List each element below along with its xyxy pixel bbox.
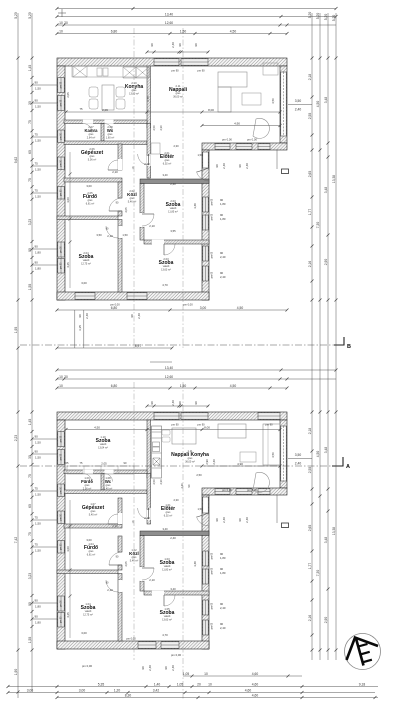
room label Szoba bbox=[160, 607, 175, 621]
svg-text:75: 75 bbox=[28, 178, 32, 182]
upper top wall windows bbox=[154, 59, 179, 65]
svg-text:3,48: 3,48 bbox=[324, 447, 328, 454]
lower plan top exterior wall bbox=[57, 412, 287, 420]
svg-text:2,40: 2,40 bbox=[222, 517, 226, 523]
lower pantry door bbox=[83, 470, 93, 474]
svg-text:2,40: 2,40 bbox=[180, 483, 184, 489]
svg-text:7,30: 7,30 bbox=[316, 222, 320, 229]
svg-text:2,50: 2,50 bbox=[152, 479, 156, 485]
lower door to bathroom bbox=[109, 552, 122, 565]
upper kitchen/living divider wall bbox=[147, 66, 151, 128]
svg-text:3,40: 3,40 bbox=[162, 173, 168, 177]
upper plan living-room right exterior wall bbox=[280, 66, 287, 143]
svg-text:20: 20 bbox=[197, 683, 201, 687]
svg-text:2,40: 2,40 bbox=[85, 313, 89, 319]
svg-text:8,97: 8,97 bbox=[135, 344, 142, 348]
svg-text:1,20: 1,20 bbox=[114, 689, 121, 693]
svg-text:pm 90: pm 90 bbox=[60, 616, 62, 623]
upper pantry door bbox=[83, 120, 93, 124]
svg-text:1,50: 1,50 bbox=[197, 507, 203, 511]
svg-text:2,40: 2,40 bbox=[245, 163, 249, 169]
svg-text:1,50: 1,50 bbox=[35, 548, 41, 552]
svg-text:1,50: 1,50 bbox=[35, 194, 41, 198]
svg-text:3,23: 3,23 bbox=[28, 219, 32, 226]
svg-text:75: 75 bbox=[80, 107, 83, 111]
lower right wall windows and entrance bbox=[203, 497, 208, 513]
upper entry closet bbox=[151, 143, 160, 154]
upper living room glass wall bbox=[281, 72, 286, 136]
svg-text:90: 90 bbox=[178, 43, 182, 47]
section line B bbox=[20, 344, 334, 346]
svg-text:2,40: 2,40 bbox=[295, 462, 302, 466]
upper wall between bottom-left room and corridor bbox=[118, 238, 122, 292]
svg-text:1,55: 1,55 bbox=[28, 284, 32, 291]
svg-text:2,10: 2,10 bbox=[112, 524, 118, 528]
svg-text:4,90: 4,90 bbox=[237, 462, 243, 466]
svg-text:4,70: 4,70 bbox=[162, 283, 168, 287]
svg-text:60: 60 bbox=[28, 150, 32, 154]
upper corridor left wall mid bbox=[118, 211, 122, 216]
room label Szoba bbox=[166, 199, 181, 213]
interior vertical dim line upper left rooms bbox=[69, 152, 71, 288]
svg-text:1,55: 1,55 bbox=[28, 637, 32, 644]
room label Szoba bbox=[79, 251, 94, 265]
svg-text:6,02 m²: 6,02 m² bbox=[164, 514, 173, 517]
svg-text:90: 90 bbox=[150, 401, 154, 405]
lower door kitchen side bbox=[138, 508, 149, 519]
svg-text:1,50: 1,50 bbox=[35, 138, 41, 142]
upper wall above mechanical room bbox=[64, 141, 147, 145]
svg-text:B: B bbox=[347, 344, 351, 350]
svg-text:3,00: 3,00 bbox=[81, 281, 87, 285]
lower left wall windows bbox=[58, 432, 64, 447]
svg-text:3,48: 3,48 bbox=[324, 537, 328, 544]
svg-text:5,20: 5,20 bbox=[316, 13, 320, 20]
room label Előtér bbox=[160, 151, 174, 165]
svg-text:60: 60 bbox=[28, 504, 32, 508]
svg-text:9,62: 9,62 bbox=[14, 157, 18, 164]
lower entrance door bbox=[196, 516, 209, 526]
svg-text:pm 90: pm 90 bbox=[60, 453, 62, 460]
upper door to bathroom bbox=[109, 198, 122, 211]
svg-text:90: 90 bbox=[238, 164, 242, 168]
svg-text:6,80: 6,80 bbox=[111, 306, 118, 310]
upper kitchen hob bbox=[123, 67, 149, 78]
svg-text:20: 20 bbox=[64, 21, 68, 25]
svg-text:3,00: 3,00 bbox=[86, 538, 92, 542]
svg-text:1,50: 1,50 bbox=[35, 104, 41, 108]
lower wall below bathroom bbox=[57, 570, 118, 574]
lower living desk bbox=[218, 424, 246, 438]
upper door to middle room bbox=[142, 214, 154, 226]
room label Előtér bbox=[161, 503, 175, 517]
svg-text:2,65: 2,65 bbox=[308, 171, 312, 178]
svg-text:13,63 m²: 13,63 m² bbox=[161, 268, 171, 271]
lower bedroom closet row bbox=[67, 466, 134, 474]
svg-text:1,45: 1,45 bbox=[28, 65, 32, 72]
svg-text:2,40: 2,40 bbox=[171, 42, 175, 48]
room label Közl bbox=[127, 189, 137, 203]
svg-text:7,42: 7,42 bbox=[14, 537, 18, 544]
svg-text:2,75: 2,75 bbox=[146, 96, 150, 102]
svg-text:90: 90 bbox=[35, 260, 39, 264]
svg-text:1,45: 1,45 bbox=[28, 419, 32, 426]
svg-text:6,80: 6,80 bbox=[111, 384, 118, 388]
svg-text:5,20: 5,20 bbox=[332, 15, 336, 22]
svg-text:1,50: 1,50 bbox=[122, 233, 128, 237]
svg-text:75: 75 bbox=[28, 532, 32, 536]
svg-text:2,40: 2,40 bbox=[148, 665, 152, 671]
svg-text:pm 90: pm 90 bbox=[265, 423, 273, 427]
svg-text:1,80: 1,80 bbox=[220, 217, 226, 221]
svg-text:2,40: 2,40 bbox=[220, 275, 226, 279]
svg-text:11,83 m²: 11,83 m² bbox=[162, 568, 172, 571]
lower wall above bottom-middle room bbox=[144, 591, 209, 595]
svg-text:3,23: 3,23 bbox=[28, 573, 32, 580]
svg-text:75: 75 bbox=[35, 542, 39, 546]
svg-text:90: 90 bbox=[178, 401, 182, 405]
svg-text:5,20: 5,20 bbox=[324, 14, 328, 21]
svg-text:5,20: 5,20 bbox=[14, 12, 18, 19]
lower bottom wall windows bbox=[138, 642, 156, 648]
svg-text:6,02 m²: 6,02 m² bbox=[163, 162, 172, 165]
svg-text:1,80: 1,80 bbox=[220, 202, 226, 206]
upper corridor right wall lower bbox=[140, 227, 144, 240]
svg-text:90: 90 bbox=[35, 244, 39, 248]
svg-text:2,65: 2,65 bbox=[308, 525, 312, 532]
svg-text:1,77: 1,77 bbox=[308, 563, 312, 570]
svg-text:3,00: 3,00 bbox=[27, 689, 34, 693]
svg-text:2,30: 2,30 bbox=[159, 479, 163, 485]
upper hall-side wall lower part bbox=[147, 124, 151, 179]
svg-text:2,40: 2,40 bbox=[220, 626, 226, 630]
svg-text:4,50: 4,50 bbox=[230, 30, 237, 34]
svg-text:2,16: 2,16 bbox=[308, 261, 312, 268]
svg-text:pm 60: pm 60 bbox=[212, 213, 214, 220]
lower wall under top-left room bbox=[64, 470, 147, 474]
lower living room glass wall bbox=[281, 426, 286, 481]
room label Nappali bbox=[169, 84, 188, 98]
svg-text:pm 0,00: pm 0,00 bbox=[222, 488, 232, 492]
svg-text:4,90: 4,90 bbox=[234, 122, 240, 126]
svg-text:10: 10 bbox=[59, 21, 63, 25]
lower corridor left wall upper bbox=[118, 536, 122, 552]
svg-text:2,18: 2,18 bbox=[308, 74, 312, 81]
room label Wc bbox=[106, 125, 115, 139]
lower mech room right wall bbox=[118, 498, 122, 524]
svg-text:4,50: 4,50 bbox=[316, 101, 320, 108]
lower wall above mechanical room bbox=[64, 490, 147, 494]
room label Gépészet bbox=[81, 147, 104, 161]
svg-text:75: 75 bbox=[35, 486, 39, 490]
svg-text:90: 90 bbox=[35, 449, 39, 453]
upper door kitchen side bbox=[138, 154, 149, 165]
svg-text:9,18: 9,18 bbox=[359, 683, 366, 687]
svg-text:1,90: 1,90 bbox=[14, 669, 18, 676]
svg-text:3,40: 3,40 bbox=[162, 527, 168, 531]
svg-text:3,00: 3,00 bbox=[86, 184, 92, 188]
svg-text:1,50: 1,50 bbox=[35, 521, 41, 525]
svg-text:pm 0,00: pm 0,00 bbox=[183, 303, 193, 307]
svg-text:1,80: 1,80 bbox=[220, 571, 226, 575]
svg-text:4,60: 4,60 bbox=[252, 672, 259, 676]
lower interior dimension annotations bbox=[65, 426, 282, 432]
svg-text:2,40: 2,40 bbox=[171, 665, 175, 671]
svg-text:12,75 m²: 12,75 m² bbox=[83, 613, 93, 616]
svg-text:1,80: 1,80 bbox=[35, 266, 41, 270]
svg-text:2,10: 2,10 bbox=[112, 170, 118, 174]
svg-text:75: 75 bbox=[35, 132, 39, 136]
svg-text:1,50: 1,50 bbox=[35, 492, 41, 496]
lower downpipe block outside right wall bbox=[282, 523, 289, 528]
svg-text:3,48: 3,48 bbox=[324, 187, 328, 194]
lower door to middle room bbox=[142, 568, 154, 580]
svg-text:1,50: 1,50 bbox=[35, 455, 41, 459]
svg-text:7,30: 7,30 bbox=[316, 570, 320, 577]
svg-text:4,50: 4,50 bbox=[230, 384, 237, 388]
svg-text:75: 75 bbox=[28, 474, 32, 478]
room label Szoba bbox=[160, 557, 175, 571]
svg-text:90: 90 bbox=[35, 598, 39, 602]
upper living cabinet bbox=[263, 63, 278, 75]
svg-text:90: 90 bbox=[35, 614, 39, 618]
svg-text:4,50: 4,50 bbox=[237, 306, 244, 310]
svg-text:2,05: 2,05 bbox=[124, 207, 128, 213]
svg-text:pm 90: pm 90 bbox=[60, 435, 62, 442]
svg-text:pm 90: pm 90 bbox=[171, 69, 179, 73]
svg-text:pm 90: pm 90 bbox=[171, 423, 179, 427]
svg-text:4,25: 4,25 bbox=[66, 262, 70, 268]
svg-text:13,40: 13,40 bbox=[165, 13, 173, 17]
upper plan top exterior wall bbox=[57, 58, 287, 66]
left dimension chain outer bbox=[14, 12, 20, 698]
upper corridor left wall upper bbox=[118, 182, 122, 198]
svg-text:pm 90: pm 90 bbox=[197, 423, 205, 427]
interior vertical dim line lower left rooms bbox=[69, 500, 71, 638]
svg-text:pm 90: pm 90 bbox=[197, 69, 205, 73]
upper kitchen counter bbox=[72, 66, 150, 77]
upper door bottom-left room bbox=[106, 226, 118, 238]
room label Szoba bbox=[96, 435, 111, 449]
svg-text:pm 0,00: pm 0,00 bbox=[171, 653, 182, 657]
svg-text:90: 90 bbox=[150, 43, 154, 47]
svg-text:13,04 m²: 13,04 m² bbox=[98, 446, 108, 449]
upper dark wall above middle room bbox=[140, 179, 209, 184]
svg-text:2,55: 2,55 bbox=[308, 467, 312, 474]
svg-text:75: 75 bbox=[28, 120, 32, 124]
svg-text:90: 90 bbox=[215, 164, 219, 168]
svg-text:4,70: 4,70 bbox=[162, 633, 168, 637]
upper kitchen table bbox=[102, 85, 114, 110]
svg-text:13,40: 13,40 bbox=[165, 366, 173, 370]
lower wc door bbox=[105, 470, 114, 474]
site corner mark top-left bbox=[58, 9, 66, 17]
svg-text:2,10: 2,10 bbox=[107, 234, 113, 238]
svg-text:pm 0,00: pm 0,00 bbox=[247, 488, 257, 492]
svg-text:2,05: 2,05 bbox=[101, 462, 107, 466]
svg-text:pm 60: pm 60 bbox=[212, 567, 214, 574]
room label Közl bbox=[129, 548, 139, 562]
svg-text:6,61 m²: 6,61 m² bbox=[87, 553, 96, 556]
svg-text:3,48: 3,48 bbox=[193, 203, 197, 209]
svg-text:90: 90 bbox=[164, 666, 168, 670]
svg-text:1,05: 1,05 bbox=[183, 672, 190, 676]
lower wall below mechanical room bbox=[64, 524, 122, 528]
svg-text:4,60: 4,60 bbox=[252, 694, 259, 698]
svg-text:pm 90: pm 90 bbox=[60, 486, 62, 493]
svg-text:2,50: 2,50 bbox=[152, 125, 156, 131]
lower corridor left wall mid bbox=[118, 565, 122, 570]
svg-text:pm 0,00: pm 0,00 bbox=[126, 637, 136, 641]
svg-text:12,60: 12,60 bbox=[165, 375, 173, 379]
lower hall-side wall lower part bbox=[147, 474, 151, 525]
svg-text:90: 90 bbox=[35, 434, 39, 438]
svg-text:1,80: 1,80 bbox=[35, 620, 41, 624]
svg-text:90: 90 bbox=[215, 518, 219, 522]
svg-text:2,18: 2,18 bbox=[308, 428, 312, 435]
svg-text:2,05: 2,05 bbox=[66, 92, 70, 98]
svg-text:3,42: 3,42 bbox=[153, 689, 160, 693]
svg-text:1,80: 1,80 bbox=[35, 250, 41, 254]
svg-text:1,80: 1,80 bbox=[35, 604, 41, 608]
svg-text:20: 20 bbox=[64, 375, 68, 379]
svg-text:36,00 m²: 36,00 m² bbox=[173, 95, 183, 98]
svg-text:2,10: 2,10 bbox=[149, 224, 155, 228]
svg-text:5,35: 5,35 bbox=[98, 683, 105, 687]
svg-text:2,23: 2,23 bbox=[14, 435, 18, 442]
svg-text:90: 90 bbox=[194, 43, 198, 47]
svg-text:pm 90: pm 90 bbox=[60, 246, 62, 253]
svg-text:3,48: 3,48 bbox=[324, 97, 328, 104]
svg-text:2,90: 2,90 bbox=[324, 259, 328, 266]
lower living cabinet bbox=[215, 416, 217, 418]
lower kitchen table bbox=[172, 428, 196, 444]
svg-text:90: 90 bbox=[35, 80, 39, 84]
lower kitchen/living divider wall bbox=[147, 420, 151, 478]
svg-text:12,75 m²: 12,75 m² bbox=[81, 262, 91, 265]
svg-text:1,40 m²: 1,40 m² bbox=[104, 487, 113, 490]
svg-text:pm 90: pm 90 bbox=[60, 600, 62, 607]
lower top wall windows bbox=[154, 413, 179, 419]
svg-text:pm 90: pm 90 bbox=[60, 543, 62, 550]
svg-text:4,50: 4,50 bbox=[271, 98, 275, 104]
svg-text:2,30: 2,30 bbox=[173, 498, 179, 502]
svg-text:6,80: 6,80 bbox=[111, 30, 118, 34]
lower plan terrace-side exterior wall bbox=[202, 488, 287, 495]
right dimension chains bbox=[308, 12, 314, 660]
svg-text:8,30: 8,30 bbox=[125, 694, 132, 698]
vertical axis line right bbox=[182, 28, 184, 348]
svg-text:pm 0,00: pm 0,00 bbox=[110, 303, 120, 307]
lower plan left exterior wall bbox=[57, 420, 65, 649]
vertical connector dims below upper plan bbox=[74, 310, 76, 348]
svg-text:90: 90 bbox=[194, 401, 198, 405]
svg-text:2,90: 2,90 bbox=[205, 459, 209, 465]
dims above lower plan bbox=[56, 366, 338, 372]
svg-text:1,50: 1,50 bbox=[35, 86, 41, 90]
lower door mechanical room bbox=[108, 514, 118, 524]
upper wall above bottom-middle room bbox=[144, 240, 209, 244]
svg-text:5,20: 5,20 bbox=[28, 12, 32, 19]
upper wc door bbox=[105, 120, 114, 124]
svg-text:5,20: 5,20 bbox=[308, 12, 312, 19]
lower door bottom-left room bbox=[106, 580, 118, 592]
lower terrace doors bbox=[215, 489, 230, 494]
upper wall below bathroom bbox=[57, 216, 118, 220]
upper right wall windows and entrance bbox=[203, 152, 208, 168]
svg-text:4,50: 4,50 bbox=[316, 451, 320, 458]
svg-text:2,10: 2,10 bbox=[144, 516, 150, 520]
svg-text:13,38: 13,38 bbox=[332, 527, 336, 535]
room label Konyha bbox=[125, 81, 144, 95]
svg-text:3,00: 3,00 bbox=[66, 546, 70, 552]
svg-text:2,06: 2,06 bbox=[102, 108, 108, 112]
svg-text:4,50: 4,50 bbox=[94, 426, 100, 430]
section line A bbox=[20, 465, 332, 467]
lower dark wall above middle room bbox=[140, 531, 209, 536]
upper plan terrace-side exterior wall bbox=[202, 143, 287, 150]
svg-text:3,50: 3,50 bbox=[295, 99, 302, 103]
svg-text:pm 0,00: pm 0,00 bbox=[222, 138, 232, 142]
lower living sofa bbox=[263, 424, 280, 465]
svg-text:1,95: 1,95 bbox=[14, 327, 18, 334]
upper interior dimension annotations bbox=[65, 108, 282, 114]
top dimension chains bbox=[56, 7, 338, 10]
svg-text:2,64 m²: 2,64 m² bbox=[87, 136, 96, 139]
lower door bottom-middle room bbox=[164, 595, 175, 606]
svg-text:90: 90 bbox=[35, 98, 39, 102]
svg-text:1,50: 1,50 bbox=[35, 440, 41, 444]
upper corridor left wall below bath wall bbox=[118, 220, 122, 227]
upper entrance door bbox=[196, 171, 209, 181]
svg-text:pm 0,00: pm 0,00 bbox=[82, 664, 93, 668]
lower corridor right wall upper bbox=[140, 536, 144, 568]
svg-text:pm 60: pm 60 bbox=[212, 271, 214, 278]
upper corridor right wall upper bbox=[140, 184, 144, 214]
svg-text:2,55: 2,55 bbox=[308, 113, 312, 120]
svg-text:1,50: 1,50 bbox=[180, 384, 187, 388]
lower living armchair bbox=[253, 472, 269, 492]
room label Fürdő bbox=[83, 191, 97, 205]
svg-text:90: 90 bbox=[78, 314, 82, 318]
svg-text:A: A bbox=[346, 464, 350, 470]
svg-text:pm 90: pm 90 bbox=[60, 132, 62, 139]
svg-text:pm 90: pm 90 bbox=[60, 159, 62, 166]
svg-text:13,38: 13,38 bbox=[332, 175, 336, 183]
svg-text:1,40: 1,40 bbox=[154, 683, 161, 687]
svg-text:5,40 m²: 5,40 m² bbox=[89, 513, 98, 516]
upper terrace doors bbox=[215, 144, 230, 149]
svg-text:2,40: 2,40 bbox=[220, 255, 226, 259]
lower wall between bottom-left room and corridor bbox=[118, 592, 122, 641]
svg-text:5,46 m²: 5,46 m² bbox=[128, 200, 137, 203]
upper door mechanical room bbox=[108, 160, 118, 170]
svg-text:1,05: 1,05 bbox=[177, 683, 184, 687]
svg-text:3,00: 3,00 bbox=[81, 631, 87, 635]
room label Gépészet bbox=[82, 502, 105, 516]
upper bottom wall windows bbox=[75, 293, 95, 299]
svg-text:3,00: 3,00 bbox=[200, 306, 207, 310]
svg-text:2,10: 2,10 bbox=[107, 588, 113, 592]
room label Kamra bbox=[84, 125, 98, 139]
upper downpipe block outside right wall bbox=[282, 169, 289, 174]
svg-text:2,56 m²: 2,56 m² bbox=[83, 487, 92, 490]
lower plan living-room right exterior wall bbox=[280, 420, 287, 488]
upper door bottom-middle room bbox=[164, 244, 175, 255]
svg-text:8,00: 8,00 bbox=[204, 426, 210, 430]
architect logo stamp bbox=[345, 634, 381, 670]
svg-text:2,40: 2,40 bbox=[245, 517, 249, 523]
